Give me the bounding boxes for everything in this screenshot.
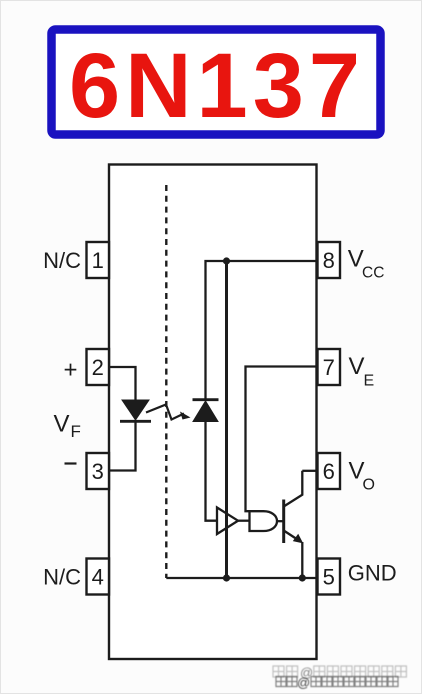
pin 3 label minus [65, 462, 77, 464]
photodiode D2 [193, 400, 219, 422]
junction node emitter to ground [299, 574, 306, 581]
svg-text:3: 3 [92, 459, 104, 484]
title box [52, 30, 381, 135]
svg-text:5: 5 [323, 565, 335, 590]
svg-text:8: 8 [323, 248, 335, 273]
pin 7 [318, 349, 341, 385]
svg-text:N/C: N/C [43, 248, 81, 273]
svg-text:2: 2 [92, 355, 104, 380]
svg-text:N/C: N/C [43, 565, 81, 590]
junction node rail to ground [223, 574, 230, 581]
wire pin2 to LED anode [109, 367, 136, 401]
svg-text:F: F [71, 422, 81, 441]
svg-text:4: 4 [92, 565, 104, 590]
svg-text:1: 1 [92, 248, 104, 273]
wire buffer output to AND gate [238, 520, 250, 522]
svg-text:V: V [349, 353, 365, 380]
wire AND output to transistor base [277, 520, 284, 522]
LED D1 [120, 400, 151, 421]
pin 5 [318, 559, 341, 595]
svg-text:V: V [54, 411, 70, 438]
pin 7 label VE [349, 353, 375, 390]
pin 2 [87, 349, 110, 385]
svg-text:6N137: 6N137 [69, 35, 365, 137]
pin 6 [318, 453, 341, 489]
pin 1 [87, 242, 110, 278]
svg-text:7: 7 [323, 355, 335, 380]
watermark line 1 [273, 665, 406, 680]
svg-text:GND: GND [348, 561, 397, 586]
buffer amplifier A1 [217, 508, 238, 535]
pin 4 [87, 559, 110, 595]
ground bus wire [166, 577, 317, 579]
svg-text:+: + [63, 357, 77, 384]
wire LED cathode to pin3 [109, 422, 136, 471]
supply rail through amplifier [225, 261, 228, 578]
pin 3 [87, 453, 110, 489]
wire photodiode anode to buffer input [206, 422, 218, 521]
pin 8 label VCC [348, 246, 385, 282]
optical isolation dashed line [165, 185, 167, 578]
wire collector to pin6 [302, 470, 317, 472]
watermark line 2 [276, 675, 398, 690]
svg-text:CC: CC [362, 265, 384, 282]
wire emitter to ground rail [301, 542, 303, 578]
label VF [54, 411, 81, 442]
light emission arrow [146, 405, 191, 420]
IC body U1 [109, 165, 317, 660]
svg-text:@: @ [297, 675, 310, 690]
svg-text:6: 6 [323, 459, 335, 484]
pin 8 [318, 242, 341, 278]
wire pin7 to AND gate enable input [246, 367, 318, 512]
AND gate G1 [250, 511, 278, 531]
pin 6 label VO [349, 458, 375, 494]
transistor Q1 [284, 471, 304, 544]
svg-text:O: O [363, 477, 375, 494]
wire pin8 rail [206, 261, 318, 399]
junction node on Vcc wire [223, 257, 230, 264]
svg-text:E: E [364, 373, 375, 390]
